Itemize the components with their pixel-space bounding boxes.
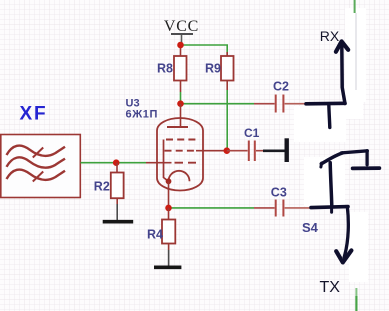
svg-text:R4: R4 — [147, 228, 163, 242]
white-out patch left of switch lever — [304, 157, 345, 206]
hand-drawn switch lever start nub — [319, 163, 323, 167]
white-out patch near RX junction — [294, 106, 346, 142]
cathode arc — [169, 171, 190, 182]
svg-text:XF: XF — [20, 103, 48, 124]
g3 to cathode rail — [164, 140, 169, 182]
pin R4 top — [168, 208, 170, 220]
pin R8 bottom — [180, 81, 182, 93]
hand-drawn RX stub down — [329, 104, 330, 128]
wire VCC node to R8 top (pin) — [180, 45, 182, 56]
resistor R2 — [111, 173, 124, 199]
svg-text:TX: TX — [320, 279, 341, 296]
white-out patch right of RX shaft — [345, 8, 366, 102]
hand-drawn RX arrowhead — [336, 41, 348, 51]
pin R9 bottom — [226, 81, 228, 91]
wire C2 to RX line — [285, 103, 307, 105]
hand-drawn switch lever — [321, 153, 342, 164]
hand-drawn pole connector vertical — [330, 163, 332, 207]
label U3 6Ж1П — [126, 98, 158, 121]
junction dot cathode internal — [166, 178, 172, 184]
resistor R9 — [221, 52, 234, 81]
svg-text:R8: R8 — [157, 62, 173, 76]
capacitor C3 — [276, 200, 284, 217]
hand-drawn contact vertical — [365, 151, 368, 165]
wave 1 — [7, 146, 66, 156]
ground bar under R4 — [154, 265, 181, 269]
svg-text:R9: R9 — [205, 62, 221, 76]
junction dot grid node — [113, 159, 120, 166]
hand-drawn pen overshoot below TX line — [330, 208, 333, 212]
wire XF to grid node — [81, 162, 147, 164]
junction dot anode node — [177, 100, 184, 107]
grid g3 dashed row — [166, 139, 196, 141]
wire VCC node to R9 top — [181, 45, 228, 56]
svg-text:C1: C1 — [244, 126, 260, 140]
ground bar under R2 — [103, 220, 134, 224]
pin R2 bottom — [116, 198, 118, 204]
wire screen node to C1 — [227, 150, 248, 152]
cathode pin down — [168, 181, 170, 208]
wave 3 — [7, 170, 66, 180]
junction dot cathode node — [165, 205, 172, 212]
wire R8 bottom to anode node — [180, 92, 182, 104]
wire R9 bottom to screen-grid node — [226, 90, 228, 151]
g2 pin to screen node — [196, 150, 227, 152]
wire cathode node to C3 — [169, 207, 255, 209]
anode plate bar — [167, 126, 188, 128]
green wire stub bottom right — [355, 288, 357, 296]
junction dot VCC node — [177, 42, 184, 49]
pin R4 bottom — [168, 244, 170, 251]
hand-drawn TX arrowhead — [336, 250, 351, 262]
green wire stub top right — [354, 0, 356, 13]
g1 pin from input — [146, 162, 172, 164]
anode pin into tube — [180, 104, 182, 127]
capacitor C2 — [276, 95, 284, 113]
pin R2 top — [116, 163, 118, 173]
wire anode node to C2 — [181, 103, 255, 105]
grid g1 dashed row — [175, 162, 197, 164]
filter XF box — [1, 135, 81, 198]
wave 2 — [7, 157, 66, 167]
hand-drawn lever horizontal to contact — [342, 151, 368, 153]
capacitor C1 — [249, 141, 255, 162]
hand-drawn TX arrow shaft — [344, 207, 348, 257]
svg-text:C3: C3 — [271, 186, 287, 200]
faint erased wire remnant at top right — [355, 13, 357, 90]
white-out patch right of RX corner — [346, 95, 363, 119]
pin C1 right — [256, 150, 263, 152]
hand-drawn RX arrow shaft — [342, 44, 345, 104]
grid g2 dashed row — [165, 150, 197, 152]
svg-text:R2: R2 — [94, 179, 110, 193]
svg-text:6Ж1П: 6Ж1П — [126, 108, 158, 120]
svg-text:S4: S4 — [302, 220, 319, 235]
resistor R4 — [162, 220, 175, 244]
hand-drawn contact T bar — [353, 166, 380, 170]
hand-drawn TX horizontal line — [311, 207, 348, 208]
power flag VCC — [164, 18, 199, 45]
hand-drawn RX horizontal line — [306, 102, 345, 106]
wire C3 to TX line — [285, 207, 311, 209]
white-out patch right of TX arrow — [349, 212, 368, 282]
svg-text:VCC: VCC — [164, 18, 199, 35]
black terminal bar at C1 — [285, 138, 289, 162]
hand-drawn black wire C1 to bar — [263, 150, 285, 153]
junction dot screen node — [224, 147, 231, 154]
tube U3 envelope — [157, 118, 203, 191]
wave 3 strike — [33, 172, 43, 182]
svg-text:RX: RX — [320, 28, 340, 44]
wave 1 strike — [33, 148, 43, 158]
resistor R8 — [174, 56, 187, 81]
svg-text:C2: C2 — [273, 80, 289, 94]
